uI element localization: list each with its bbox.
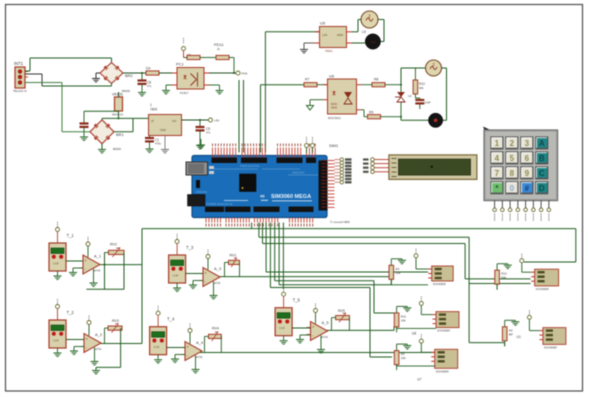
wire [391, 284, 428, 286]
wire [66, 260, 83, 262]
Arduino Mega board U3 [186, 156, 328, 218]
ground [496, 264, 498, 271]
svg-text:SOUNDER: SOUNDER [544, 345, 557, 349]
wire [200, 352, 435, 354]
wire [378, 19, 384, 21]
svg-text:+: + [84, 258, 87, 263]
op-amp A_3 [199, 250, 222, 299]
optocoupler PC1 [172, 62, 209, 96]
svg-text:PC1: PC1 [176, 62, 185, 67]
op-amp A_5 [307, 304, 330, 353]
svg-text:TBLOCK-I3: TBLOCK-I3 [13, 89, 27, 93]
svg-text:6: 6 [525, 154, 530, 163]
svg-text:CAP: CAP [425, 101, 431, 105]
sensor transformer T_2 [49, 299, 74, 356]
svg-text:T_3: T_3 [186, 245, 194, 250]
ground [390, 259, 392, 266]
AC voltmeter V2 [426, 60, 442, 76]
svg-text:470u: 470u [155, 142, 161, 146]
svg-text:CUR: CUR [53, 339, 59, 343]
wire [292, 327, 310, 329]
wire [396, 365, 398, 367]
driver module M2 [436, 312, 459, 328]
resistor R2 [502, 327, 507, 341]
svg-text:1: 1 [495, 139, 500, 148]
svg-text:uA741: uA741 [94, 347, 102, 351]
svg-text:INT1: INT1 [14, 61, 24, 66]
wire [102, 117, 149, 119]
svg-text:RV5: RV5 [338, 309, 345, 313]
svg-text:47u: 47u [206, 131, 211, 135]
wire bus C [262, 223, 264, 244]
svg-text:PD11: PD11 [214, 42, 224, 47]
svg-text:+: + [85, 337, 88, 342]
Arduino right terminals [335, 158, 352, 184]
sensor transformer T_1 [49, 222, 74, 279]
ground [296, 335, 311, 343]
wire [504, 343, 506, 347]
svg-text:PC817: PC817 [180, 91, 189, 95]
ground [98, 149, 106, 151]
svg-text:T_4: T_4 [167, 317, 175, 322]
wire [104, 253, 106, 290]
svg-text:2: 2 [510, 139, 515, 148]
svg-text:T_5: T_5 [293, 298, 301, 303]
svg-text:CUR: CUR [53, 262, 59, 266]
wire bus B [258, 223, 260, 238]
svg-text:SIMULINO: SIMULINO [292, 171, 305, 175]
wire [269, 223, 271, 288]
svg-text:R7: R7 [305, 78, 309, 82]
wire [219, 276, 389, 278]
svg-text:B: B [539, 154, 545, 163]
wire [84, 110, 119, 112]
keypad KP1 [483, 127, 558, 201]
wire [118, 111, 120, 118]
ground [396, 306, 398, 313]
keypad pins and terminals [493, 201, 551, 221]
svg-text:VI: VI [151, 119, 154, 123]
svg-text:uA741: uA741 [93, 269, 101, 273]
varistor VR1 [112, 92, 123, 117]
ground [300, 43, 314, 53]
svg-text:∞: ∞ [260, 193, 265, 200]
svg-text:60k: 60k [419, 86, 424, 90]
ground [209, 85, 224, 94]
svg-text:BR1: BR1 [116, 132, 125, 137]
wire [101, 144, 103, 149]
lamp L1 [365, 34, 380, 49]
svg-text:C1: C1 [155, 138, 159, 142]
capacitor C8 [138, 72, 152, 96]
terminal [415, 249, 417, 250]
svg-text:L5: L5 [362, 30, 366, 34]
wire [274, 223, 276, 281]
wire [278, 223, 280, 285]
svg-text:A_5: A_5 [322, 320, 330, 325]
svg-text:CUR: CUR [173, 274, 179, 278]
svg-text:D: D [539, 184, 545, 193]
svg-text:#: # [525, 184, 530, 193]
relay U5 [314, 21, 352, 54]
ground [162, 85, 172, 94]
capacitor C5 [196, 120, 211, 149]
Arduino bottom pin stubs [206, 218, 313, 227]
wire [164, 136, 166, 150]
ground [307, 100, 324, 110]
svg-text:POS: POS [242, 72, 248, 76]
bridge rectifier BR1 [90, 120, 125, 151]
wire [99, 343, 142, 345]
svg-text:BR206: BR206 [113, 147, 121, 151]
wire [400, 117, 402, 121]
svg-text:R9: R9 [369, 111, 373, 115]
potentiometer RV5 [332, 309, 350, 330]
svg-text:7: 7 [495, 169, 500, 178]
resistor R5 [146, 67, 177, 76]
wire [352, 42, 365, 44]
svg-text:+: + [312, 325, 315, 330]
svg-text:7805: 7805 [150, 108, 157, 112]
triac U1 [395, 85, 412, 117]
wire [264, 32, 266, 153]
wire [84, 131, 90, 133]
wire [352, 31, 358, 33]
svg-text:3: 3 [525, 139, 530, 148]
sensor transformer T_4 [150, 306, 175, 363]
svg-text:9W10-1N: 9W10-1N [112, 113, 123, 117]
capacitor C1 [145, 136, 161, 153]
potentiometer RV1 [225, 254, 240, 277]
svg-text:H5R: H5R [337, 33, 344, 37]
terminal [521, 254, 523, 255]
svg-text:1: 1 [150, 103, 152, 107]
svg-text:A_2: A_2 [95, 332, 103, 337]
potentiometer RV4 [205, 327, 222, 353]
svg-text:BP: BP [509, 332, 513, 336]
svg-text:U1: U1 [408, 94, 412, 98]
svg-text:9: 9 [525, 169, 530, 178]
svg-text:U5: U5 [320, 21, 326, 26]
driver module M3 [435, 349, 458, 368]
svg-text:SOUNDER: SOUNDER [436, 369, 449, 373]
ground [189, 281, 203, 289]
svg-text:RV3: RV3 [112, 319, 119, 323]
terminal pair above board [305, 137, 315, 153]
ground [70, 347, 84, 355]
LCD terminals [363, 158, 389, 174]
wire bus A [251, 223, 253, 229]
svg-text:SOUNDER: SOUNDER [536, 287, 549, 291]
regulator U2 7805 [149, 103, 182, 136]
driver module M1 [432, 266, 454, 281]
svg-text:SIM1: SIM1 [329, 143, 339, 148]
svg-text:C5: C5 [206, 127, 210, 131]
svg-text:D4: D4 [146, 67, 150, 71]
svg-text:TRIAC: TRIAC [325, 49, 333, 53]
svg-text:47u: 47u [147, 84, 152, 88]
svg-text:VO: VO [172, 119, 177, 123]
wire [114, 131, 133, 133]
resistor R9 [361, 110, 402, 119]
svg-text:A_1: A_1 [94, 254, 102, 259]
svg-text:SOUNDER: SOUNDER [433, 282, 446, 286]
capacitor CAP [415, 98, 430, 109]
resistor R4 [389, 265, 394, 279]
terminal [420, 296, 422, 297]
AC voltmeter V1 [361, 11, 378, 34]
wire [396, 327, 398, 329]
svg-text:BR2: BR2 [125, 73, 134, 78]
Arduino right pin stubs [322, 160, 335, 207]
wire [496, 284, 498, 290]
svg-text:SOUNDER: SOUNDER [437, 329, 450, 333]
power terminal +5V [199, 118, 219, 123]
ground [171, 355, 185, 363]
potentiometer RV2 [105, 243, 125, 258]
driver module M2R [543, 328, 566, 345]
svg-text:RV2: RV2 [110, 243, 117, 247]
terminal [182, 38, 192, 58]
svg-text:C8: C8 [147, 81, 151, 85]
svg-text:CUR: CUR [154, 345, 160, 349]
sensor transformer T_3 [169, 234, 194, 291]
svg-text:ARDUINO: ARDUINO [196, 191, 207, 194]
op-amp A_1 [79, 237, 102, 286]
connector INT1 [13, 61, 28, 93]
svg-text:CUR: CUR [279, 326, 285, 330]
wire [282, 223, 284, 290]
resistor R8 [361, 78, 402, 87]
svg-text:uA741: uA741 [195, 355, 203, 359]
svg-text:+5V: +5V [214, 119, 219, 123]
wire [238, 80, 240, 153]
wire [62, 131, 84, 133]
wire [243, 80, 245, 153]
wire [25, 73, 42, 75]
svg-text:8: 8 [510, 169, 515, 178]
svg-text:0: 0 [510, 184, 515, 193]
svg-text:U1: U1 [517, 335, 521, 339]
resistor R12 [495, 270, 500, 284]
svg-text:uA741: uA741 [321, 335, 329, 339]
wire [400, 68, 402, 85]
svg-text:GND: GND [160, 128, 166, 132]
lamp L2 [428, 113, 442, 127]
svg-text:U7: U7 [417, 378, 421, 382]
svg-text:RV4: RV4 [212, 327, 219, 331]
ground [197, 139, 205, 148]
svg-text:C: C [539, 169, 545, 178]
svg-text:PWM DIGITAL: PWM DIGITAL [240, 164, 260, 168]
terminal POS [236, 71, 248, 76]
svg-text:A_4: A_4 [196, 340, 204, 345]
wire [265, 223, 267, 273]
sensor transformer T_5 [275, 287, 300, 344]
wire [442, 67, 447, 69]
svg-text:U6: U6 [329, 74, 335, 79]
svg-text:3021: 3021 [331, 106, 338, 110]
wire [86, 288, 124, 290]
ground [92, 73, 100, 82]
wire [123, 72, 146, 74]
svg-text:U8: U8 [412, 332, 416, 336]
svg-text:A: A [539, 139, 545, 148]
svg-text:© muund HB0I: © muund HB0I [330, 220, 350, 224]
svg-text:SIM3060 MEGA: SIM3060 MEGA [271, 194, 311, 200]
op-amp A_2 [80, 316, 103, 365]
svg-text:4: 4 [495, 154, 500, 163]
wire [260, 85, 262, 153]
svg-text:LIN: LIN [323, 33, 328, 37]
wire [100, 264, 142, 266]
wire [120, 328, 122, 367]
svg-text:R8: R8 [374, 78, 378, 82]
terminal [420, 334, 422, 335]
wire [326, 329, 395, 331]
svg-text:T_1: T_1 [67, 233, 75, 238]
driver module M1R [535, 269, 559, 286]
wire [25, 70, 30, 72]
resistor PD11 [214, 42, 235, 74]
svg-text:10k: 10k [401, 356, 406, 360]
svg-text:MOC3021: MOC3021 [328, 116, 341, 120]
optocoupler U6 [323, 74, 361, 121]
svg-text:+: + [204, 271, 207, 276]
wire [209, 72, 236, 74]
LCD display LCD1 [389, 155, 477, 180]
potentiometer RV3 [105, 319, 123, 344]
svg-text:T_2: T_2 [67, 310, 75, 315]
svg-text:10k: 10k [401, 318, 406, 322]
wire [25, 82, 62, 84]
terminal [528, 310, 530, 311]
svg-text:RV1: RV1 [230, 254, 237, 258]
svg-text:+: + [186, 345, 189, 350]
svg-text:POWER ANALOG IN: POWER ANALOG IN [206, 202, 232, 206]
resistor R11 [394, 313, 399, 327]
resistor R3 [184, 55, 217, 59]
Arduino top pin stubs [213, 144, 316, 158]
ground [396, 344, 398, 351]
wire [186, 273, 203, 275]
svg-text:LOA: LOA [370, 40, 375, 44]
capacitor C2 [80, 111, 89, 140]
svg-text:VR1(5): VR1(5) [112, 93, 123, 97]
svg-text:5: 5 [510, 154, 515, 163]
wire [42, 85, 112, 87]
op-amp A_4 [181, 324, 204, 373]
svg-text:uA741: uA741 [213, 281, 221, 285]
wire [182, 119, 209, 121]
svg-text:10k: 10k [396, 271, 401, 275]
resistor R7 [304, 78, 328, 87]
wire [66, 339, 84, 341]
svg-text:60k: 60k [501, 276, 506, 280]
resistor R6 [394, 351, 399, 365]
ground [69, 268, 83, 276]
ground [92, 370, 100, 372]
svg-text:A_3: A_3 [214, 266, 222, 271]
ground [161, 149, 169, 151]
bridge rectifier BR2 [100, 63, 134, 94]
ground [504, 320, 506, 327]
wire [167, 347, 185, 349]
wire [111, 58, 113, 63]
svg-text:BR206: BR206 [122, 89, 130, 93]
resistor R10 [413, 68, 425, 98]
